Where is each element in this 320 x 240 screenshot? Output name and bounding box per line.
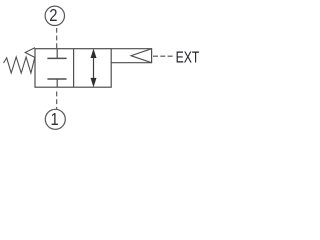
- blocked port bottom bar: [47, 78, 66, 80]
- dashed pilot line to EXT: [153, 55, 173, 57]
- valve envelope: [35, 49, 111, 87]
- flow arrow head up: [91, 49, 97, 58]
- svg-text:2: 2: [49, 6, 57, 26]
- dashed line port 2 to valve: [56, 28, 58, 49]
- svg-text:EXT: EXT: [176, 48, 200, 66]
- blocked port bottom stub: [56, 79, 58, 87]
- blocked port top bar: [47, 57, 66, 59]
- blocked port top stub: [56, 49, 58, 59]
- dashed line valve to port 1: [56, 92, 58, 110]
- flow arrow shaft: [93, 56, 95, 80]
- flow arrow head down: [91, 78, 97, 87]
- spring: [4, 57, 36, 73]
- envelope divider: [73, 49, 75, 87]
- pilot triangle: [131, 49, 152, 63]
- port 1 circle: [45, 109, 65, 129]
- pilot box: [111, 49, 151, 63]
- port 2 circle: [45, 6, 64, 25]
- svg-text:1: 1: [50, 109, 58, 129]
- spring seat triangle: [25, 48, 35, 58]
